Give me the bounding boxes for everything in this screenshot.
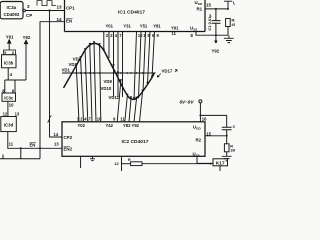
svg-text:Y51: Y51: [140, 24, 148, 29]
ground stub IC2 bottom: [90, 156, 95, 160]
IC1 CD4017 box: [65, 0, 206, 32]
svg-text:C: C: [233, 125, 235, 129]
gate IC3b: [4, 50, 16, 55]
wire IC1 output column 3: [103, 32, 105, 52]
wire IC1 output column 9b: [148, 32, 151, 85]
svg-text:EN: EN: [66, 19, 72, 24]
svg-text:11: 11: [172, 31, 177, 36]
svg-text:R2: R2: [196, 138, 202, 143]
svg-text:IC2 CD4017: IC2 CD4017: [122, 139, 149, 145]
wire IC1 EN to lower rail: [40, 22, 65, 159]
svg-text:DD: DD: [198, 2, 203, 6]
junction clock node: [48, 9, 50, 11]
svg-text:5: 5: [4, 51, 6, 55]
svg-text:7: 7: [119, 33, 122, 38]
wire IC3b out to IC3c in: [7, 68, 9, 80]
svg-text:EN: EN: [30, 142, 36, 147]
resistor R5: [226, 136, 228, 144]
svg-text:IC1 CD4017: IC1 CD4017: [118, 9, 145, 15]
svg-text:8: 8: [191, 33, 194, 38]
svg-text:6: 6: [12, 51, 14, 55]
gate IC3c: [2, 93, 16, 101]
wire Y92 to IC3c pin8: [5, 80, 26, 93]
wire IC2 column q2: [85, 51, 88, 122]
wire IC2 vss to connector: [197, 156, 213, 163]
svg-text:Y42: Y42: [106, 123, 114, 128]
ground symbol top right: [224, 35, 234, 42]
svg-text:IC3d: IC3d: [4, 123, 14, 128]
wire CP from IC3a to IC1 pin13: [25, 10, 64, 12]
svg-text:Y31: Y31: [123, 24, 131, 29]
wire supply to IC2 pin16: [200, 103, 226, 127]
resistor R3: [226, 19, 231, 27]
wire IC1 output column last: [152, 32, 155, 79]
svg-text:Y91: Y91: [6, 34, 14, 39]
svg-text:Y01: Y01: [106, 24, 114, 29]
wire IC1 output column 6: [143, 32, 146, 92]
svg-text:VD17: VD17: [162, 69, 173, 74]
gate IC3d: [1, 117, 16, 132]
wire reset R2 to RC: [205, 135, 227, 137]
wire IC2 column q3: [90, 45, 92, 122]
svg-text:6V~9V: 6V~9V: [180, 99, 195, 104]
svg-text:SS: SS: [193, 28, 197, 32]
svg-text:10: 10: [97, 116, 102, 121]
svg-text:Y91: Y91: [171, 26, 179, 31]
svg-text:U: U: [233, 1, 235, 6]
svg-text:11: 11: [120, 116, 125, 121]
svg-text:R1: R1: [197, 6, 203, 11]
svg-text:12: 12: [3, 112, 8, 117]
clock waveform symbol: [37, 1, 56, 6]
svg-text:4: 4: [10, 72, 13, 77]
svg-text:CP2: CP2: [64, 135, 73, 140]
svg-text:13: 13: [15, 112, 20, 117]
svg-text:SS: SS: [196, 154, 200, 158]
svg-text:15: 15: [206, 3, 211, 8]
capacitor C2: [222, 127, 232, 136]
svg-text:4: 4: [84, 116, 87, 121]
svg-text:7: 7: [89, 116, 92, 121]
svg-text:2: 2: [110, 33, 113, 38]
svg-text:IC3b: IC3b: [4, 60, 14, 65]
wire IC2 column q8: [117, 82, 121, 122]
wire IC1 output column 1: [134, 32, 137, 100]
wire IC2 column q7b: [140, 92, 143, 122]
svg-text:1M: 1M: [230, 148, 235, 152]
svg-text:11: 11: [9, 141, 14, 146]
wire IC2 column q9: [125, 96, 128, 122]
svg-text:IC3c: IC3c: [4, 96, 14, 101]
junction dots on axis: [75, 72, 143, 74]
svg-text:3: 3: [106, 33, 109, 38]
svg-text:CP: CP: [26, 13, 32, 18]
svg-text:13: 13: [54, 142, 59, 147]
gate IC3a: [0, 2, 23, 19]
wire output through resistor: [122, 163, 131, 165]
svg-text:16: 16: [202, 117, 207, 122]
svg-text:DD: DD: [196, 127, 201, 131]
ground symbol bottom right: [222, 156, 232, 161]
svg-text:CP1: CP1: [66, 5, 75, 10]
wire IC1 output column 7: [117, 32, 119, 98]
wire IC3c out to IC3d: [7, 101, 9, 116]
output bus axis: [62, 72, 156, 74]
svg-text:45: 45: [232, 23, 236, 27]
node Y92 arrow at IC1 VSS: [215, 35, 217, 43]
svg-text:14: 14: [57, 17, 63, 22]
svg-text:4: 4: [115, 33, 118, 38]
svg-text:Y92: Y92: [23, 35, 31, 40]
svg-text:VD9: VD9: [104, 79, 113, 84]
diode symbols on sine: [75, 41, 153, 100]
svg-text:VD1: VD1: [62, 67, 71, 72]
wire IC2 column q1: [81, 59, 84, 122]
wire IC2 column q4: [94, 43, 96, 121]
supply rail UDD top right: [224, 1, 232, 9]
wire IC2 column q5: [100, 45, 101, 121]
wire IC1 output column 4: [113, 32, 115, 97]
svg-text:Y02: Y02: [78, 123, 86, 128]
wire IC1 output column 5: [139, 32, 142, 99]
wire IC2 column q0: [76, 66, 79, 122]
svg-text:Y81: Y81: [153, 24, 161, 29]
wire IC2 column q7: [134, 99, 137, 122]
pin stub IC2 bottom left: [80, 156, 82, 168]
capacitor C1: [212, 9, 221, 35]
svg-text:C1 0.01µ: C1 0.01µ: [207, 14, 212, 31]
svg-text:R: R: [128, 158, 131, 162]
svg-text:10: 10: [9, 102, 14, 107]
sine waveform curve: [64, 43, 155, 99]
svg-text:EN2: EN2: [64, 147, 73, 152]
svg-text:9: 9: [113, 116, 116, 121]
junction dot pin15/C1: [215, 8, 217, 10]
inverter bubble IC3a output: [23, 9, 26, 12]
svg-text:CD4093: CD4093: [4, 12, 20, 17]
svg-text:VD11: VD11: [109, 95, 120, 100]
wire IC1 output column 10: [122, 32, 124, 98]
lower rail wire: [0, 148, 40, 158]
wire clock vertical to IC2 CP2: [50, 11, 63, 138]
svg-text:9: 9: [157, 33, 160, 38]
svg-text:13: 13: [57, 5, 63, 10]
svg-text:Y92: Y92: [212, 49, 220, 54]
VSS wire of IC1: [196, 32, 228, 36]
IC2 CD4017 box: [62, 122, 205, 157]
resistor R4 output: [131, 162, 142, 166]
wire IC2 column q6: [129, 99, 131, 122]
svg-text:12: 12: [114, 161, 119, 166]
connector K17 box: [213, 159, 228, 166]
waveform symbol near CP2: [48, 116, 52, 123]
wire IC1 output column 2: [108, 32, 110, 59]
svg-text:IC3a: IC3a: [7, 5, 17, 10]
output column from IC2 pin12: [121, 156, 123, 171]
svg-text:3: 3: [27, 4, 30, 9]
wire IC3d out to EN2: [8, 132, 62, 149]
svg-text:Y82 Y92: Y82 Y92: [123, 123, 140, 128]
svg-text:VD10: VD10: [101, 86, 112, 91]
svg-text:14: 14: [54, 132, 59, 137]
IC1 pin15 reset wire: [205, 8, 228, 10]
